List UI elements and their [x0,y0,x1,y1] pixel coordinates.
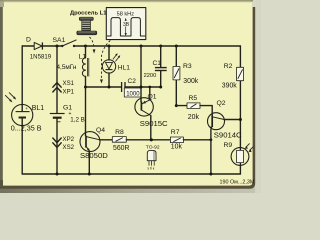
wire Q1 emitter up [149,87,151,100]
wire Q4 collector to R8 [100,139,113,141]
battery G1 [50,105,85,124]
svg-text:XS2: XS2 [63,144,75,151]
svg-text:560R: 560R [113,145,129,152]
LED HL1 [102,53,130,73]
svg-text:Q4: Q4 [96,127,105,134]
svg-text:D: D [26,37,31,44]
node: C1 branch on top rail [159,45,162,48]
diode D 1N5819 [30,42,52,60]
svg-text:R2: R2 [224,63,233,70]
wire Q4 emitter down [88,151,90,174]
wire battery branch [56,46,58,174]
svg-text:R7: R7 [171,129,180,136]
wire right rail [239,46,241,174]
node: R3 branch on top rail [175,45,178,48]
node: L1 branch junction on top rail [84,45,87,48]
light arrows into BL1 [5,92,16,102]
resistor R3 300k [173,46,199,106]
resistor R5 20k [187,95,200,121]
svg-text:300k: 300k [183,78,198,85]
svg-text:4,5мГн: 4,5мГн [57,64,77,71]
node: HL1 top rail junction [108,45,111,48]
solar cell BL1 [11,104,44,132]
svg-text:1000: 1000 [126,91,140,97]
wire HL1 branch [108,46,110,87]
node: Q4 emitter to rail [88,173,91,176]
svg-text:э б к: э б к [147,166,155,170]
resistor R7 10k [170,129,183,151]
svg-text:20k: 20k [188,114,200,121]
node: Q1 collector junction [150,138,153,141]
wire R3 node to R5 [176,105,187,107]
svg-text:HL1: HL1 [118,65,130,72]
wire Q1 collector down [150,116,152,140]
svg-text:58 kHz: 58 kHz [117,11,135,17]
connector XS1/XP1 [53,80,75,96]
resistor R2 390k [222,63,244,89]
wire R5 to Q2 base [200,106,212,116]
svg-text:Q2: Q2 [217,100,226,107]
node: Q1 emitter junction [148,86,151,89]
svg-text:XS1: XS1 [63,80,75,87]
svg-text:C1: C1 [153,60,162,67]
svg-text:Дроссель L1: Дроссель L1 [70,10,107,16]
wire Q1 base vertical [140,46,142,102]
svg-text:BL1: BL1 [32,105,44,112]
wire L1 bottom to Q4 base [85,76,87,135]
wire top rail [22,45,240,47]
transistor Q4 S8050D [80,127,108,160]
wire R8 to junction [126,139,170,141]
node: Q1 base branch on top rail [140,45,143,48]
svg-text:C2: C2 [128,78,137,85]
connector XP2/XS2 [53,136,75,151]
transistor Q1 S9015C [135,94,168,128]
node: R7/Q2 emitter junction [210,138,213,141]
svg-text:R8: R8 [115,129,124,136]
node: battery branch to bottom rail [56,173,59,176]
svg-text:S9015C: S9015C [140,119,168,128]
svg-text:1,2 В: 1,2 В [70,117,84,124]
waveform inset box 58 kHz [106,8,146,40]
wire C2 node row [86,86,161,88]
inductor L1 [57,53,89,76]
wire L1 branch down [85,46,87,58]
svg-text:XP2: XP2 [63,136,75,143]
svg-text:2200: 2200 [144,73,157,79]
dashed pointer from choke to L1 [90,37,96,54]
capacitor C1 [144,46,167,87]
node: Q2 emitter rail junction [209,173,212,176]
wire left rail [21,46,23,174]
wire R7 to Q2 emitter line [183,139,211,141]
svg-text:S8050D: S8050D [80,151,108,160]
wire bottom rail [22,173,240,175]
svg-text:3В: 3В [123,22,130,28]
svg-text:S9014C: S9014C [214,130,242,139]
svg-text:XP1: XP1 [63,89,75,96]
svg-text:R5: R5 [189,95,198,102]
switch SA1 [53,37,77,47]
photoresistor R9 [224,142,254,166]
svg-text:R3: R3 [183,63,192,70]
node: battery branch junction on top rail [56,45,59,48]
node: R5 junction [175,104,178,107]
svg-text:R9: R9 [224,142,233,149]
node: C1 bottom junction [159,86,162,89]
svg-text:+: + [25,106,28,111]
node: collector/R2/R9 junction [239,118,242,121]
choke photo drawing [77,17,97,35]
dashed pointer from waveform box to L1/C2 node [100,41,110,84]
svg-text:390k: 390k [222,83,237,90]
svg-text:10k: 10k [171,144,183,151]
svg-text:1N5819: 1N5819 [30,53,52,60]
transistor Q2 S9014C [208,100,243,140]
svg-text:0...2,35 В: 0...2,35 В [11,123,42,132]
node: crossing at C2 row [140,86,143,89]
capacitor C2 [122,78,141,97]
wire Q2 collector to right rail [224,119,240,121]
TO-92 package drawing [146,144,160,170]
node: HL1 bottom junction [108,86,111,89]
resistor R8 560R [112,129,129,152]
svg-text:SA1: SA1 [53,37,66,44]
svg-text:TO-92: TO-92 [146,144,160,150]
wire Q2 emitter down [210,130,212,175]
node: L1/C2 node [84,86,87,89]
svg-text:190 Ом...2,3М: 190 Ом...2,3М [220,179,255,185]
